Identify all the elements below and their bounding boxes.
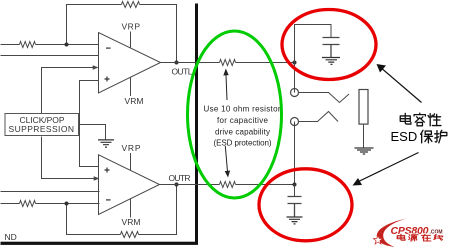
arrowhead into U1 (93, 65, 99, 70)
svg-text:VRP: VRP (122, 143, 141, 153)
svg-text:drive capability: drive capability (215, 127, 270, 136)
svg-text:ND: ND (5, 232, 17, 242)
op-amp U1 (99, 33, 161, 94)
resistor R4 (feedback R) (121, 232, 139, 238)
resistor R1 (input L) (20, 42, 36, 48)
ground symbol (sleeve) (355, 148, 374, 154)
node dot OUTR/cap junction (293, 183, 297, 187)
svg-text:OUTR: OUTR (169, 173, 191, 183)
wire sleeve to ground (363, 124, 365, 148)
resistor R5 10 ohm (L) (220, 60, 236, 66)
red ellipse bottom (259, 169, 352, 241)
wire input line L1 left (1, 44, 20, 46)
capacitor C1 (323, 38, 340, 58)
wire jack tip R down to OUTR node (294, 122, 296, 185)
jack switch contact 1 (299, 93, 350, 103)
wire VRP stub (U2) (130, 153, 132, 170)
logo 电源在线 (397, 234, 442, 241)
wire input line L3 (1, 191, 100, 193)
wire OUTL to jack node (236, 62, 295, 64)
svg-text:ESD: ESD (391, 129, 418, 144)
wire VRM stub (U1) (130, 78, 132, 97)
wire OUTR to jack node (236, 184, 295, 186)
svg-text:OUTL: OUTL (172, 67, 193, 77)
wire click/pop to U2 with arrow (42, 137, 96, 179)
wire input line L2 (1, 55, 99, 57)
op-amp U1 minus sign (106, 48, 111, 49)
svg-text:for capacitive: for capacitive (217, 116, 269, 125)
wire OUTL from U1 (161, 62, 220, 64)
note down arrow (225, 146, 227, 172)
wire VRM stub (U2) (130, 199, 132, 218)
logo star (373, 235, 382, 244)
node junction dot feedback/OUTR (175, 183, 179, 187)
chip boundary thick vertical (195, 4, 198, 243)
callout arrow bottom (357, 153, 419, 183)
svg-text:Use 10 ohm resistor: Use 10 ohm resistor (204, 105, 281, 114)
wire input line L4 left (1, 203, 20, 205)
wire feedback top right and down to OUTL (140, 5, 177, 63)
wire node to cap C2 (294, 185, 296, 197)
ground symbol (C2) (287, 217, 303, 224)
wire feedback bottom right up to OUTR (139, 185, 177, 235)
svg-text:(ESD protection): (ESD protection) (214, 139, 272, 148)
wire L-branch to U1 plus input (80, 81, 100, 167)
wire input L4 to op-amp (36, 203, 100, 205)
ground symbol (click/pop) (98, 140, 114, 147)
capacitor C2 (288, 197, 302, 217)
jack sleeve rectangle (359, 90, 368, 125)
op-amp U2 (99, 155, 160, 215)
node junction dot L4/feedback (65, 202, 69, 206)
op-amp U2 minus sign (106, 199, 111, 200)
node dot OUTL/cap junction (293, 61, 297, 65)
svg-text:SUPPRESSION: SUPPRESSION (9, 124, 75, 134)
wire feedback top vertical (67, 5, 122, 45)
ground symbol (C1) (322, 58, 340, 65)
wire node to jack tip L (294, 63, 296, 93)
svg-text:VRM: VRM (122, 217, 141, 227)
callout arrow top (380, 67, 422, 103)
node junction dot L1/feedback (65, 43, 69, 47)
jack contact circle 2 (291, 118, 299, 126)
wire VRP stub (U1) (130, 32, 132, 48)
box CLICK/POP SUPPRESSION (5, 114, 79, 136)
jack switch contact 2 (299, 112, 339, 122)
node junction dot feedback/OUTL (175, 61, 179, 65)
resistor R2 (feedback L) (122, 2, 140, 8)
wire ground branch (80, 125, 106, 140)
wire feedback bottom vertical (67, 204, 121, 235)
logo swoosh (377, 218, 408, 247)
note up arrow (226, 75, 227, 100)
svg-text:VRM: VRM (125, 96, 144, 106)
label 电容性 (400, 113, 441, 126)
resistor R3 (input R) (20, 201, 36, 207)
wire to ESD cap C1 (295, 25, 332, 63)
red ellipse top (282, 10, 376, 80)
wire click/pop to U1 with arrow (42, 68, 95, 116)
wire OUTR from U2 (160, 184, 220, 186)
chip boundary thick bottom (1, 242, 199, 245)
wire input L1 to op-amp (36, 44, 99, 46)
op-amp U2 plus sign (105, 168, 110, 173)
svg-text:VRP: VRP (122, 22, 141, 32)
jack contact circle 1 (291, 89, 299, 97)
op-amp U1 plus sign (105, 77, 110, 82)
green ellipse highlight (188, 31, 282, 198)
arrowhead into U2 (94, 176, 100, 181)
resistor R6 10 ohm (R) (220, 182, 236, 188)
